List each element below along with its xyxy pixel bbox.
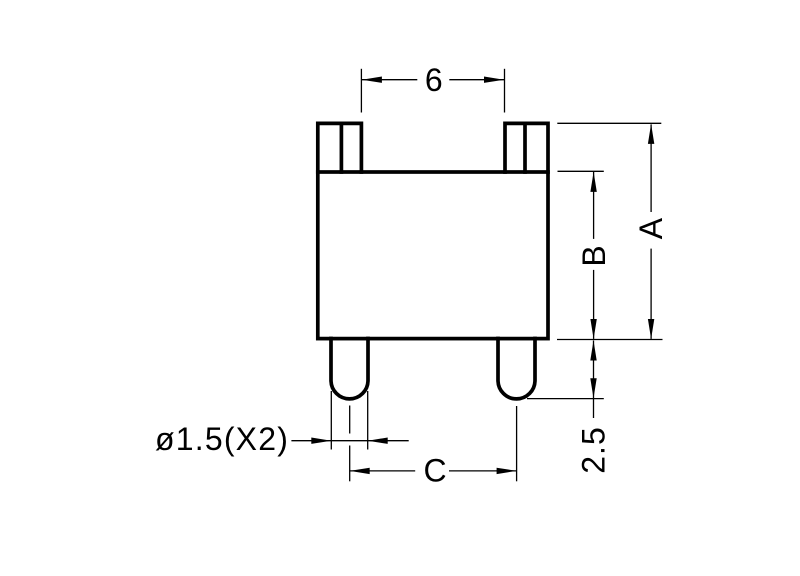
dim 6: left extension line (360, 69, 362, 113)
dim dia1.5: dimension line with outside tails (291, 440, 408, 442)
component body (318, 172, 548, 339)
dim C: dimension line left segment (350, 470, 416, 472)
dim B: top arrowhead (590, 172, 596, 192)
dim C: left extension line lower segment (pin centerline) (349, 446, 351, 482)
dim 6: right arrowhead (484, 77, 504, 83)
dim 2.5: tail below lower extension line (593, 398, 595, 418)
dim 2.5: upper arrowhead pointing up (590, 341, 596, 361)
dim A: dimension line lower segment (650, 249, 652, 339)
dim dia1.5: left arrowhead pointing right (311, 438, 331, 444)
dim 2.5: lower arrowhead pointing down (590, 378, 596, 398)
dim 6: dimension line left segment (362, 79, 417, 81)
dim A: top extension line (557, 122, 661, 124)
dim 6: right extension line (504, 69, 506, 113)
dim A/B: bottom extension line at body bottom (557, 339, 663, 341)
dim 6: dimension line right segment (449, 79, 504, 81)
dim B: dimension line lower segment (593, 270, 595, 339)
left tab divider line (340, 123, 344, 172)
right tab divider line (523, 123, 527, 172)
dim dia1.5: right extension line (367, 391, 369, 450)
dim B: dimension line upper segment (593, 172, 595, 239)
svg-text:6: 6 (425, 62, 443, 98)
dim dia1.5: right arrowhead pointing left (368, 438, 388, 444)
dim C: left arrowhead pointing left (350, 468, 370, 474)
svg-text:A: A (633, 217, 669, 239)
left top tab (318, 123, 362, 172)
dim 2.5: bottom extension line at pin bottom (527, 398, 604, 400)
dim B: bottom arrowhead (590, 319, 596, 339)
svg-text:2.5: 2.5 (575, 426, 611, 473)
dim C: right arrowhead pointing right (497, 468, 517, 474)
right bottom pin (498, 339, 535, 399)
svg-text:ø1.5(X2): ø1.5(X2) (155, 421, 289, 457)
left bottom pin (331, 339, 368, 399)
dim A: bottom arrowhead (648, 319, 654, 339)
dim 2.5: vertical dimension line (593, 341, 595, 399)
dim dia1.5: left extension line (330, 391, 332, 450)
dim 6: left arrowhead (362, 77, 382, 83)
dim C: right extension line (pin centerline) (516, 406, 518, 481)
dim A: dimension line upper segment (650, 124, 652, 212)
dim B: top extension line (558, 170, 604, 172)
dim C: dimension line right segment (449, 470, 517, 472)
svg-text:B: B (576, 245, 612, 266)
right top tab (505, 123, 548, 172)
dim C: left extension line upper segment (pin centerline) (349, 406, 351, 434)
svg-text:C: C (423, 453, 446, 489)
dim A: top arrowhead (648, 124, 654, 144)
